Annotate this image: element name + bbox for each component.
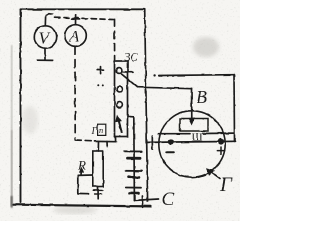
minus label [167, 151, 174, 153]
wire: outer frame top side [21, 8, 145, 10]
brush terminal right (plus) [218, 138, 224, 144]
contact 3 [117, 102, 123, 108]
contact 1 [116, 68, 122, 74]
voltmeter V1 [34, 26, 56, 48]
wire: right terminal to right vertical [224, 140, 235, 142]
wire: main vertical bus (right of ZS) [145, 9, 148, 201]
chassis hatch at R bottom [93, 189, 103, 191]
wire: A bottom dashed lead [74, 47, 76, 140]
wire: V bottom lead [44, 48, 46, 59]
wire: between brush terminals [174, 141, 218, 143]
wire: right vertical drop [233, 75, 236, 142]
brush bar chord right [203, 132, 234, 134]
wire: wiper horizontal [78, 174, 93, 176]
wire: tick under Gp box [106, 142, 108, 147]
wire: ZS bottom lead to junction [115, 137, 117, 142]
wire: dashed measuring line along top [55, 17, 114, 19]
contact 2 [117, 86, 123, 92]
svg-text:Г: Г [91, 126, 98, 137]
wire: contact1 to right bus and across [122, 71, 133, 74]
generator G circle [159, 111, 225, 177]
battery cell2 short plate [129, 176, 140, 179]
node: bottom-right junction tick [141, 196, 143, 207]
wire: wiper return L [78, 175, 89, 193]
rheostat wiper arrow [80, 170, 82, 176]
battery cell3 short plate [130, 192, 139, 195]
svg-text:С: С [162, 189, 175, 210]
svg-text:A: A [69, 29, 80, 46]
terminal bar under V [38, 59, 53, 61]
Sh field terminal box [180, 119, 208, 132]
wire: outer frame left side [20, 10, 22, 203]
minus mark at ZS (two dots) [98, 84, 100, 86]
wire: junction down to R [97, 142, 99, 151]
rheostat R body [93, 151, 103, 187]
wire: terminal line from bus to left brush [148, 141, 168, 143]
battery GB cell1 long plate [124, 150, 142, 152]
svg-text:В: В [196, 87, 207, 107]
battery cell1 short plate [128, 157, 141, 160]
brush bar chord left [159, 133, 191, 135]
wire: A top lead with cross mark [75, 15, 77, 25]
arrow to G [211, 172, 220, 179]
wire: battery bottom stub [135, 199, 159, 200]
wire: junction line under Gp [95, 140, 117, 142]
wire: drop into Sh box with arrowhead [191, 89, 193, 119]
selector ZS box [115, 61, 128, 137]
wire: dashed horizontal to R junction [75, 139, 94, 142]
wire: V top hook to dashed line [45, 14, 52, 26]
terminal tick bar [151, 136, 153, 150]
wire: wiper arm diagonal from contact1 [122, 74, 138, 87]
svg-text:п: п [99, 125, 103, 135]
plus mark at ZS [97, 69, 104, 71]
wire: battery vertical [133, 117, 136, 201]
wire: arm horizontal to B corner [138, 87, 192, 89]
brush terminal left (minus) [168, 139, 174, 145]
plus label [217, 150, 224, 152]
battery cell3 long plate [126, 187, 141, 189]
wire: ZS right stub to battery [128, 116, 134, 118]
ammeter A1 [65, 25, 87, 47]
wire: R bottom lead [97, 187, 99, 199]
wire: dashed drop to ZS box [114, 20, 116, 61]
battery cell2 long plate [126, 170, 142, 172]
svg-text:Г: Г [219, 174, 233, 196]
svg-text:ЗС: ЗС [125, 52, 139, 64]
wire: bottom bus [14, 205, 152, 207]
fuse Gp box [98, 124, 106, 135]
paper background [0, 0, 240, 221]
wiper arrow inside ZS [118, 118, 122, 133]
